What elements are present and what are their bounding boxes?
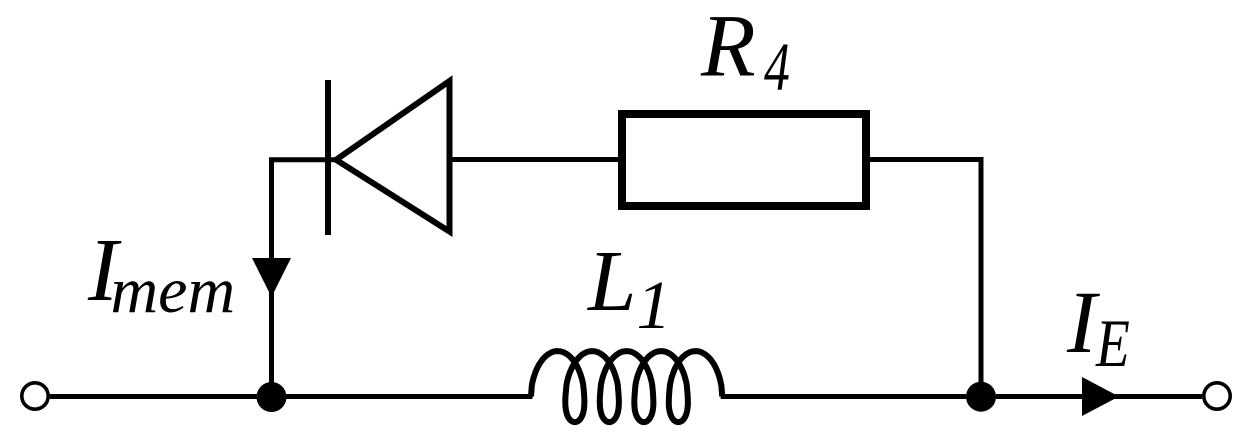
- svg-text:I: I: [1066, 274, 1100, 372]
- arrow: I_E current direction (right): [1082, 377, 1119, 416]
- diode D1 cathode bar: [325, 80, 331, 235]
- svg-text:R: R: [700, 0, 756, 96]
- wire: diode to resistor: [450, 157, 619, 162]
- wire: bottom rail mid segment: [721, 394, 966, 399]
- svg-text:L: L: [586, 232, 636, 329]
- terminal: left open circle: [22, 383, 48, 409]
- svg-text:E: E: [1095, 307, 1130, 381]
- wire: left vertical branch: [269, 160, 274, 398]
- svg-text:mem: mem: [111, 254, 236, 327]
- node: right junction dot: [966, 382, 996, 412]
- wire: top branch left horizontal to diode apex: [269, 157, 336, 162]
- wire: resistor to right corner: [870, 157, 981, 162]
- resistor R4 body: [622, 114, 866, 206]
- arrow: I_mem current direction (down): [252, 258, 291, 297]
- terminal: right open circle: [1204, 383, 1230, 409]
- node: left junction dot: [257, 382, 287, 412]
- svg-text:4: 4: [764, 30, 790, 106]
- inductor L1 coil: [531, 351, 722, 422]
- diode D1 triangle: [336, 81, 450, 232]
- svg-text:1: 1: [637, 267, 672, 343]
- wire: bottom rail right segment: [996, 394, 1202, 399]
- wire: bottom rail left segment: [50, 394, 533, 399]
- wire: right vertical branch: [979, 157, 984, 397]
